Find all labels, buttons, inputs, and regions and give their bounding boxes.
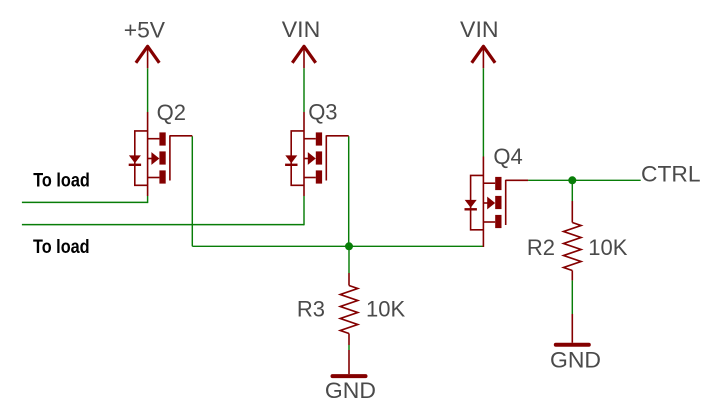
svg-text:VIN: VIN	[460, 17, 499, 42]
svg-text:Q3: Q3	[308, 100, 337, 125]
svg-text:R2: R2	[527, 235, 555, 260]
svg-text:To load: To load	[33, 171, 90, 192]
svg-text:+5V: +5V	[124, 17, 166, 42]
svg-text:R3: R3	[297, 296, 325, 321]
svg-text:CTRL: CTRL	[641, 161, 701, 186]
svg-text:GND: GND	[325, 378, 376, 403]
svg-text:Q4: Q4	[493, 144, 522, 169]
svg-text:GND: GND	[550, 347, 601, 372]
svg-text:To load: To load	[33, 237, 90, 258]
svg-text:Q2: Q2	[157, 100, 186, 125]
svg-text:VIN: VIN	[282, 17, 321, 42]
svg-text:10K: 10K	[588, 235, 627, 260]
svg-text:10K: 10K	[366, 296, 405, 321]
